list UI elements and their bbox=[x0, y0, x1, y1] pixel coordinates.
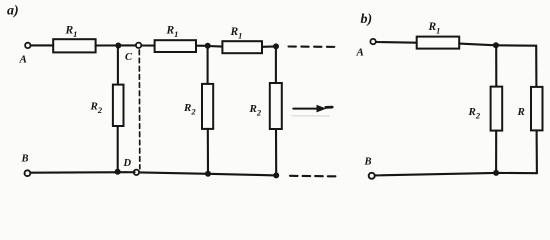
resistor R2 (third shunt, circuit a) bbox=[270, 83, 282, 129]
resistor R1 (third series, circuit a) bbox=[222, 41, 262, 53]
wire: R down to bottom-right corner (circuit b) bbox=[496, 130, 537, 173]
junction J3 (top, third shunt) bbox=[273, 43, 279, 49]
junction (bottom, second shunt) bbox=[205, 171, 211, 177]
faint scan artifact line under arrow bbox=[292, 115, 329, 117]
resistor R2 (first shunt, circuit a) bbox=[113, 85, 124, 126]
terminal B (circuit a) bbox=[25, 170, 31, 176]
resistor R1 (second series, circuit a) bbox=[155, 40, 196, 52]
node D junction bbox=[115, 169, 121, 175]
label R (circuit b) bbox=[517, 106, 525, 118]
node C junction bbox=[115, 43, 121, 49]
junction (bottom node, circuit b) bbox=[493, 170, 499, 176]
wire: node C down to R2a bbox=[117, 46, 119, 85]
label R1 (third) bbox=[230, 26, 243, 41]
svg-text:A: A bbox=[19, 54, 27, 66]
tap terminal C' (open circle on top wire) bbox=[136, 43, 141, 48]
figure label a) bbox=[7, 4, 19, 19]
terminal A (circuit a) bbox=[25, 43, 30, 48]
svg-text:D: D bbox=[123, 158, 132, 169]
label A (circuit a) bbox=[19, 54, 27, 66]
wire: top node down to R2 (circuit b) bbox=[495, 45, 497, 86]
wire: R1 to junction (circuit b top) bbox=[459, 44, 496, 46]
wire: terminal B to node D bbox=[31, 171, 135, 174]
label R2 (second) bbox=[183, 102, 196, 117]
label R2 (third) bbox=[249, 103, 262, 118]
wire: J2 down to R2b bbox=[207, 46, 209, 84]
dashed continuation wire (bottom right, circuit a) bbox=[290, 175, 339, 178]
dashed continuation wire (top right, circuit a) bbox=[289, 45, 338, 48]
figure label b) bbox=[361, 12, 373, 27]
label R1 (circuit b) bbox=[428, 21, 441, 36]
wire: terminal B to bottom node (circuit b) bbox=[375, 173, 496, 176]
resistor R2 (second shunt, circuit a) bbox=[202, 84, 213, 129]
svg-text:A: A bbox=[356, 47, 364, 59]
wire: R1a to node C bbox=[96, 44, 137, 46]
resistor R1 (first series, circuit a) bbox=[53, 39, 95, 52]
svg-text:b): b) bbox=[361, 12, 373, 27]
label A (circuit b) bbox=[356, 47, 364, 59]
dashed section line C to D bbox=[138, 50, 141, 169]
resistor R2 (circuit b) bbox=[491, 87, 503, 131]
wire: R2c down to bottom junction bbox=[275, 129, 277, 175]
wire: R1b to junction J2 bbox=[196, 45, 208, 47]
terminal B (circuit b) bbox=[369, 173, 375, 179]
wire: C' to resistor R1b bbox=[142, 44, 155, 46]
wire: terminal A to resistor R1 (circuit b) bbox=[376, 41, 417, 44]
svg-text:B: B bbox=[364, 157, 372, 168]
junction (top node, circuit b) bbox=[493, 42, 499, 48]
wire: R1c to junction J3 bbox=[262, 45, 276, 47]
label R1 (second) bbox=[166, 25, 179, 40]
label B (circuit a) bbox=[21, 154, 29, 165]
wire: R2a down to node D bbox=[117, 126, 119, 172]
wire: terminal A to resistor R1a bbox=[31, 44, 53, 46]
wire: J2 to resistor R1c bbox=[208, 45, 223, 48]
svg-text:a): a) bbox=[7, 4, 19, 19]
wire: R2 down to bottom junction (circuit b) bbox=[495, 131, 497, 173]
wire: J3 down to R2c bbox=[275, 46, 277, 83]
label D bbox=[123, 158, 132, 169]
label B (circuit b) bbox=[364, 157, 372, 168]
svg-text:C: C bbox=[125, 52, 133, 63]
label R1 (first) bbox=[65, 25, 78, 40]
terminal A (circuit b) bbox=[370, 39, 375, 44]
resistor R (circuit b) bbox=[531, 87, 543, 130]
svg-text:B: B bbox=[21, 154, 29, 165]
equivalence arrow bbox=[293, 108, 319, 110]
label R2 (circuit b) bbox=[468, 106, 481, 121]
wire: R2b down to bottom junction bbox=[207, 129, 209, 174]
junction (bottom, third shunt) bbox=[273, 172, 279, 178]
label C bbox=[125, 52, 133, 63]
svg-text:R: R bbox=[517, 106, 525, 118]
wire: node D region to third shunt bottom bbox=[140, 172, 276, 175]
wire: top node to top-right corner (circuit b) bbox=[496, 45, 537, 87]
label R2 (first) bbox=[90, 101, 103, 116]
tap terminal D' (open circle on bottom wire) bbox=[134, 170, 139, 175]
resistor R1 (circuit b) bbox=[417, 37, 460, 49]
junction J2 (top, second shunt) bbox=[205, 43, 211, 49]
